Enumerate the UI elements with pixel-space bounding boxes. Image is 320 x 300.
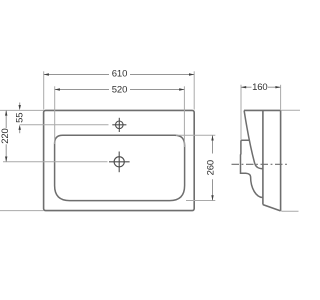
svg-text:160: 160: [252, 82, 267, 93]
side view horizontal centerline (dash-dot): [232, 163, 290, 165]
side view basin front slope: [244, 111, 263, 169]
dimension 260 arrows: [211, 135, 213, 200]
svg-text:260: 260: [206, 160, 217, 175]
dimension 160 arrows: [241, 86, 281, 88]
dimension 520 line: [55, 89, 185, 91]
drain hole centerline (thin horizontal at y=161.8): [3, 161, 108, 163]
extension lines for 520: [55, 86, 185, 147]
side view bottom slant edge: [263, 205, 281, 211]
svg-text:610: 610: [112, 69, 127, 80]
alignment line bottom (thin projection line at bottom edge level): [0, 210, 299, 213]
svg-text:520: 520: [112, 85, 127, 96]
side view back (wall) edge: [280, 110, 282, 210]
faucet hole (small circle with crosshair): [112, 118, 126, 132]
dimension 160 line: [241, 86, 281, 88]
basin inner bowl (front view rounded rectangle): [55, 135, 185, 200]
extension lines for 260: [176, 135, 215, 200]
dimension 610 line: [44, 74, 195, 76]
alignment line top (thin projection line across page at top edge level): [0, 109, 300, 111]
dimension 610 arrows: [44, 73, 195, 75]
extension lines for 610: [44, 71, 195, 109]
side view profile top edge: [244, 110, 281, 210]
faucet hole centerline (thin horizontal at y=124.8): [20, 124, 109, 126]
dimension 220 (vertical line at far left): [5, 110, 7, 161]
dimension 55 (vertical, arrows outside): [19, 103, 21, 134]
washbasin outer rim (front view rectangle): [44, 110, 195, 210]
extension lines for 160: [241, 85, 281, 140]
dimension 260 line: [212, 135, 214, 200]
drain hole (large circle with crosshair): [109, 152, 130, 173]
side view rear inner vertical line: [262, 110, 264, 204]
svg-text:220: 220: [0, 128, 11, 143]
svg-text:55: 55: [14, 113, 25, 123]
side view apron / siphon cover outline: [241, 140, 263, 197]
dimension 520 arrows: [55, 88, 185, 90]
